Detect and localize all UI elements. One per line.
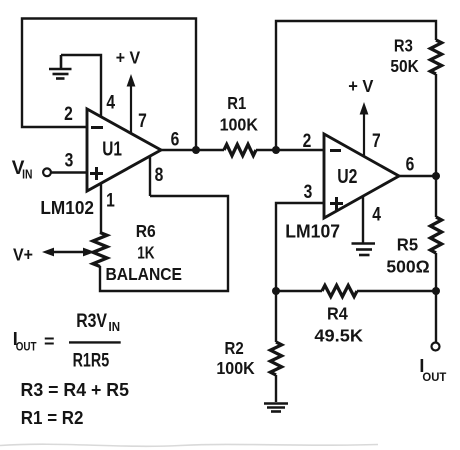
svg-text:=: = [44,332,55,352]
terminal IOUT [432,343,440,351]
ground (U1) [49,55,72,79]
svg-text:BALANCE: BALANCE [106,264,183,284]
wire/arrow U1 pin 7 to +V [127,74,136,133]
wire U2 pin 4 down [362,196,364,243]
potentiometer R6 [93,233,107,267]
wire U1 pin 8 down [149,156,151,196]
svg-text:+ V: + V [116,47,141,67]
svg-text:6: 6 [171,130,180,151]
wire U1 feedback loop (pin 6 to pin 2) [22,19,196,151]
svg-text:49.5K: 49.5K [314,326,363,346]
wire R3 to U2 output [435,74,437,176]
svg-text:7: 7 [138,111,147,132]
svg-text:2: 2 [64,104,73,125]
svg-text:R1 = R2: R1 = R2 [21,408,84,428]
wire R4 to output node [357,290,436,292]
fraction bar [69,341,121,343]
svg-text:R6: R6 [136,221,156,241]
resistor R4 [322,285,357,296]
svg-text:1: 1 [106,191,115,212]
scan artifact line [0,444,378,446]
svg-text:4: 4 [106,93,115,114]
wire R2 to ground [275,375,277,402]
svg-text:100K: 100K [216,358,255,378]
op-amp U2 [324,134,399,218]
svg-text:V+: V+ [13,244,33,264]
svg-text:3: 3 [65,151,74,172]
wire ground to U1 pin 4 [61,55,101,118]
svg-text:+ V: + V [348,76,373,96]
node U2 output junction [432,172,440,180]
resistor R2 [270,342,281,375]
resistor R1 [224,144,256,155]
formula IOUT = [13,329,55,354]
svg-text:100K: 100K [220,114,259,134]
node U1 output junction [192,146,200,154]
wire/arrow U2 pin 7 to +V [360,102,369,156]
svg-text:50K: 50K [390,56,419,76]
svg-text:U2: U2 [337,166,357,188]
op-amp U1 [87,109,161,191]
resistor R3 [430,40,441,74]
svg-text:U1: U1 [102,139,122,161]
svg-text:3: 3 [304,182,313,203]
wire U1 pin 1 down [100,183,102,233]
wire R5 down [435,253,437,291]
node R2/R4 junction [272,287,280,295]
wire VIN to U1 pin 3 [51,171,87,173]
svg-text:6: 6 [406,155,415,176]
svg-text:2: 2 [303,131,312,152]
node output junction [432,287,440,295]
svg-text:R4: R4 [327,304,348,324]
svg-text:R3V: R3V [76,311,107,332]
wire pin 8 to balance box [100,196,228,291]
wire node to R2 [275,291,277,342]
wire node to R4 [276,290,322,292]
formula numerator R3VIN [76,311,120,334]
wire to IOUT terminal [435,291,437,342]
svg-text:7: 7 [372,131,381,152]
svg-text:IN: IN [22,167,32,181]
ground (U2) [352,244,376,256]
svg-text:R2: R2 [225,338,244,358]
svg-text:LM107: LM107 [285,221,340,242]
svg-text:R1: R1 [227,93,246,113]
svg-text:R1R5: R1R5 [73,351,110,372]
wiper arrow (R6) [42,248,95,257]
wire R1 to U2 pin 2 [256,149,324,151]
wire to R5 [435,176,437,217]
terminal VIN [43,168,51,176]
svg-text:4: 4 [372,205,381,226]
svg-text:IN: IN [109,320,121,334]
svg-text:OUT: OUT [16,340,37,354]
ground (R2) [264,404,288,412]
svg-text:R3: R3 [394,35,413,55]
wire U2 feedback up [276,21,436,150]
wire U2 output [399,175,436,177]
svg-text:R3 = R4 + R5: R3 = R4 + R5 [21,380,130,400]
wire U2 pin 3 [276,203,324,291]
wire U1 output rail [161,149,224,151]
svg-text:8: 8 [155,165,164,186]
svg-text:LM102: LM102 [40,197,94,218]
svg-text:500Ω: 500Ω [386,256,429,276]
svg-text:1K: 1K [137,242,155,262]
svg-text:OUT: OUT [422,370,447,384]
svg-text:R5: R5 [397,235,419,255]
resistor R5 [430,217,441,253]
node U2 input junction [272,146,280,154]
